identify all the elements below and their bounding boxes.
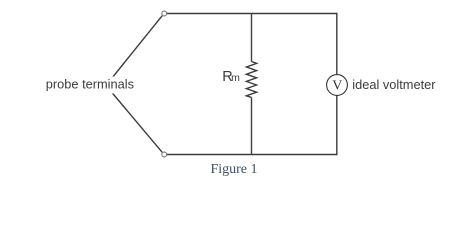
wire: resistor bottom lead xyxy=(251,97,253,154)
wire: resistor top lead xyxy=(251,14,253,62)
wire: right vertical upper xyxy=(336,13,338,75)
svg-text:V: V xyxy=(332,78,342,93)
svg-text:probe terminals: probe terminals xyxy=(46,76,134,91)
terminal: bottom probe circle xyxy=(162,152,167,157)
voltmeter V1: body xyxy=(327,75,348,96)
svg-text:ideal voltmeter: ideal voltmeter xyxy=(352,77,436,92)
wire: bottom horizontal xyxy=(166,154,337,156)
label: probe terminals xyxy=(42,76,134,93)
wire: probe upper diagonal xyxy=(106,16,162,86)
wire: right vertical lower xyxy=(336,95,338,155)
svg-text:Figure 1: Figure 1 xyxy=(210,162,257,177)
resistor Rm xyxy=(246,62,256,98)
wire: top horizontal xyxy=(166,13,337,15)
svg-text:Rm: Rm xyxy=(222,69,240,85)
terminal: top probe circle xyxy=(162,11,167,16)
wire: probe lower diagonal xyxy=(106,86,162,153)
